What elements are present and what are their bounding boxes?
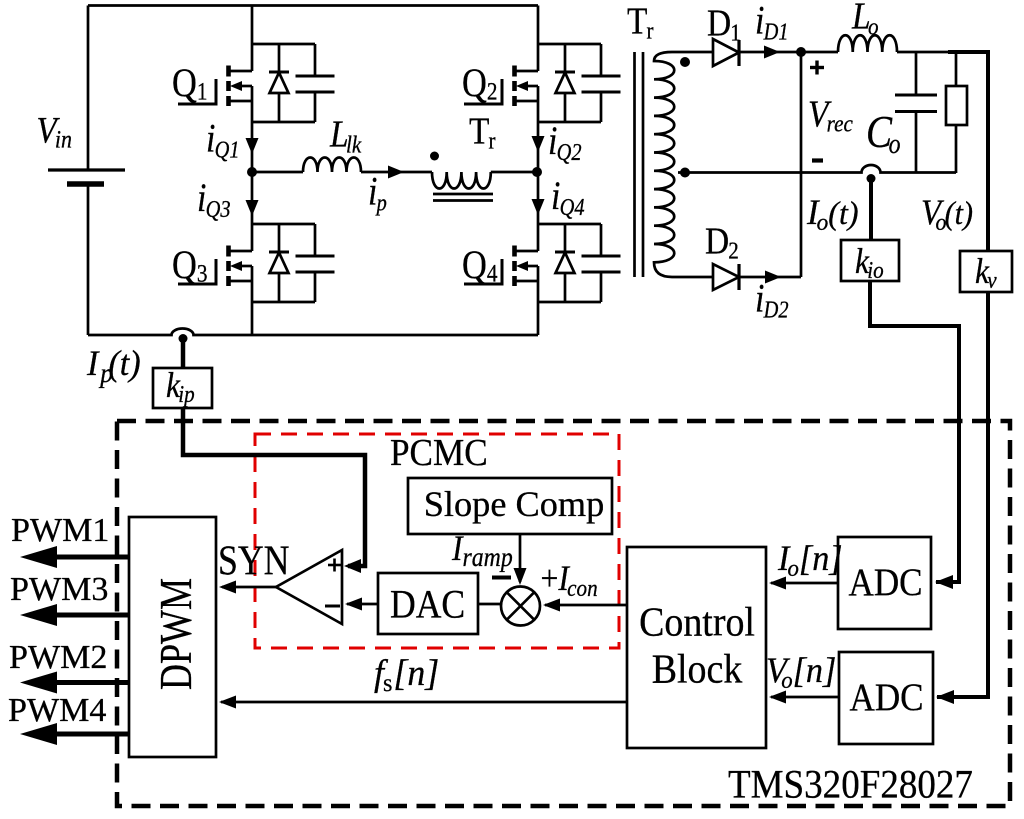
svg-text:iD2: iD2 [755, 277, 789, 323]
svg-text:iD1: iD1 [755, 0, 789, 45]
svg-text:fs[n]: fs[n] [374, 653, 439, 698]
svg-text:Iramp: Iramp [451, 529, 513, 572]
svg-text:Vrec: Vrec [808, 93, 853, 137]
svg-text:ip: ip [368, 170, 387, 216]
svg-text:DPWM: DPWM [150, 578, 201, 690]
svg-text:iQ3: iQ3 [197, 177, 231, 223]
svg-text:Tr: Tr [627, 0, 654, 44]
svg-text:DAC: DAC [390, 583, 465, 627]
svg-text:iQ2: iQ2 [548, 120, 582, 166]
svg-text:Io[n]: Io[n] [777, 538, 843, 582]
svg-text:Vo(t): Vo(t) [921, 193, 973, 236]
svg-text:ADC: ADC [850, 675, 924, 718]
svg-text:PWM1: PWM1 [11, 512, 109, 549]
svg-text:Co: Co [866, 107, 901, 159]
svg-text:Vin: Vin [37, 109, 73, 153]
svg-text:ADC: ADC [849, 560, 923, 603]
svg-text:PWM4: PWM4 [8, 692, 106, 729]
svg-text:iQ4: iQ4 [551, 175, 585, 221]
svg-text:PWM3: PWM3 [10, 571, 108, 608]
svg-text:Vo[n]: Vo[n] [766, 650, 836, 694]
svg-text:PWM2: PWM2 [9, 639, 107, 676]
svg-text:Q2: Q2 [462, 62, 497, 106]
svg-text:D1: D1 [707, 2, 741, 46]
svg-text:Block: Block [652, 646, 743, 692]
svg-text:D2: D2 [705, 220, 739, 264]
svg-text:TMS320F28027: TMS320F28027 [728, 762, 973, 807]
svg-text:iQ1: iQ1 [206, 117, 240, 163]
svg-text:Q4: Q4 [462, 244, 498, 288]
svg-text:Io(t): Io(t) [806, 192, 859, 237]
svg-text:Tr: Tr [469, 110, 496, 154]
svg-text:Lo: Lo [851, 0, 878, 40]
svg-text:Llk: Llk [329, 113, 362, 158]
svg-text:PCMC: PCMC [390, 431, 488, 473]
svg-text:Q3: Q3 [172, 244, 207, 288]
svg-text:Q1: Q1 [172, 62, 207, 106]
svg-text:Ip(t): Ip(t) [86, 343, 141, 388]
svg-text:+Icon: +Icon [541, 559, 598, 601]
svg-text:SYN: SYN [218, 538, 289, 584]
svg-text:Slope Comp: Slope Comp [424, 484, 605, 524]
svg-text:Control: Control [639, 599, 755, 645]
